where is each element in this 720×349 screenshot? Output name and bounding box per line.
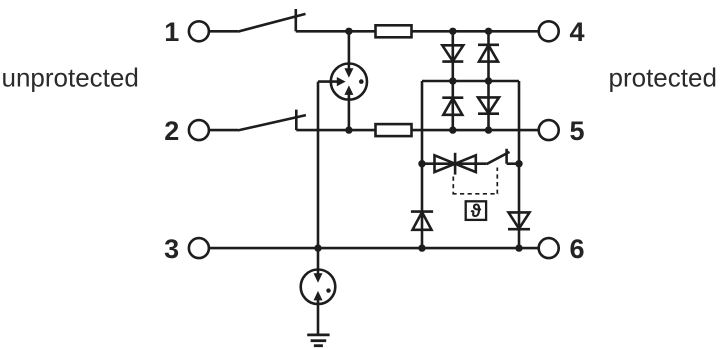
diode D3 triangle: [479, 45, 498, 62]
diode D2 (column 1 lower, pointing up) cathode bar: [442, 96, 463, 99]
F1 inner dot: [359, 79, 364, 84]
terminal 6: [539, 238, 559, 258]
diode column 1 wire: [451, 31, 454, 130]
svg-text:ϑ: ϑ: [471, 201, 482, 221]
diode D1 (column 1 upper, pointing down) triangle: [442, 45, 463, 61]
diode column 2 wire: [487, 31, 490, 130]
wire row1 from switch to node A: [296, 30, 349, 33]
suppressor network box left side / left branch wire: [421, 81, 424, 248]
terminal 1: [189, 21, 209, 41]
wire row2 from terminal 2 to switch: [209, 129, 238, 132]
diode D2 triangle: [443, 98, 462, 115]
wire from F1 left arm down to row3 (crosses row2): [317, 82, 320, 249]
F1 bottom electrode arrow: [344, 85, 353, 95]
F2 top electrode arrow: [314, 273, 323, 283]
terminal 4: [539, 21, 559, 41]
resistor R1: [376, 25, 412, 37]
disconnect switch S2 contact post: [295, 110, 298, 131]
junction dot row3 / ground branch: [314, 244, 321, 251]
thermal link dashed line left vertical: [452, 177, 454, 194]
svg-text:5: 5: [569, 116, 584, 146]
junction dot left branch / thyristor row: [418, 160, 425, 167]
diode D4 cathode bar: [478, 112, 499, 115]
svg-text:unprotected: unprotected: [2, 63, 139, 93]
F2 inner dot: [326, 288, 330, 292]
disconnect switch S1 blade: [238, 14, 306, 32]
wire thyristor row left: [422, 162, 487, 165]
ground symbol bar 3: [314, 344, 323, 347]
terminal 3: [189, 238, 209, 258]
wire row2 from switch to resistor R2: [296, 129, 375, 132]
thermal disconnect switch S3 contact post: [505, 149, 508, 164]
diode D3 (column 2 upper, pointing up) cathode bar: [478, 43, 499, 46]
svg-text:6: 6: [569, 234, 584, 264]
bidirectional thyristor V1 left triangle: [435, 155, 456, 172]
diode D6 cathode bar: [508, 228, 530, 231]
ground symbol bar 2: [311, 339, 327, 342]
node A junction dot: [345, 28, 352, 35]
ground symbol bar 1: [307, 333, 329, 336]
bidirectional thyristor V1 center bar: [454, 153, 457, 175]
wire row3 from terminal 3 to terminal 6: [209, 247, 538, 250]
F1 top electrode arrow: [344, 68, 353, 78]
wire row2 resistor R2 to terminal 5: [412, 129, 539, 132]
junction dot right branch / thyristor row: [515, 160, 522, 167]
thermal link dashed line right vertical: [496, 168, 498, 194]
F1 left electrode arrow: [337, 77, 346, 86]
gas discharge tube F2 body: [301, 270, 336, 305]
gas discharge tube F1 (3-electrode arrester) body: [331, 64, 367, 100]
junction dot column2 / box edge: [485, 77, 492, 84]
svg-text:4: 4: [569, 17, 584, 47]
thermal disconnect switch S3 blade: [487, 152, 510, 164]
junction dot row3 / left branch: [418, 244, 425, 251]
disconnect switch S2 blade: [238, 115, 306, 130]
junction dot row1 / diode column 2: [485, 28, 492, 35]
F2 bottom electrode arrow: [314, 291, 323, 301]
thermal link dashed line horizontal: [452, 193, 498, 195]
junction dot row1 / diode column 1: [449, 28, 456, 35]
junction dot row2 / diode column 2: [485, 126, 492, 133]
disconnect switch S1 contact post: [294, 9, 297, 31]
wire row3 down to gas discharge tube F2: [317, 248, 320, 274]
suppressor network box right side / right branch wire: [518, 81, 521, 248]
terminal 5: [539, 120, 559, 140]
svg-text:protected: protected: [609, 63, 717, 93]
wire from node A down to gas discharge tube F1: [348, 31, 351, 69]
wire row1 resistor R1 to terminal 4: [412, 30, 539, 33]
diode D4 (column 2 lower, pointing down) triangle: [478, 97, 499, 113]
terminal 2: [189, 120, 209, 140]
F1 left electrode wire: [318, 80, 338, 83]
diode D6 (right branch, pointing down) triangle: [509, 212, 530, 228]
bidirectional thyristor V1 right triangle: [455, 155, 476, 172]
wire F1 bottom to row2 node B: [348, 94, 351, 130]
svg-text:2: 2: [164, 116, 179, 146]
junction dot row2 / diode column 1: [449, 126, 456, 133]
node B junction dot: [345, 126, 352, 133]
resistor R2: [376, 124, 412, 136]
diode D5 triangle: [413, 212, 432, 230]
wire switch S3 to right branch: [507, 162, 519, 165]
diode D1 cathode bar: [442, 60, 463, 63]
suppressor network box top edge: [422, 80, 519, 83]
svg-text:1: 1: [164, 17, 179, 47]
temperature sensor box: [466, 201, 486, 220]
wire F2 to ground: [317, 299, 320, 335]
diode D5 (left branch, pointing up) cathode bar: [411, 210, 433, 213]
wire row1 node A to resistor R1: [349, 30, 376, 33]
wire row1 from terminal 1 to switch: [209, 30, 238, 33]
junction dot column1 / box edge: [449, 77, 456, 84]
svg-text:3: 3: [164, 234, 179, 264]
junction dot row3 / right branch: [515, 244, 522, 251]
